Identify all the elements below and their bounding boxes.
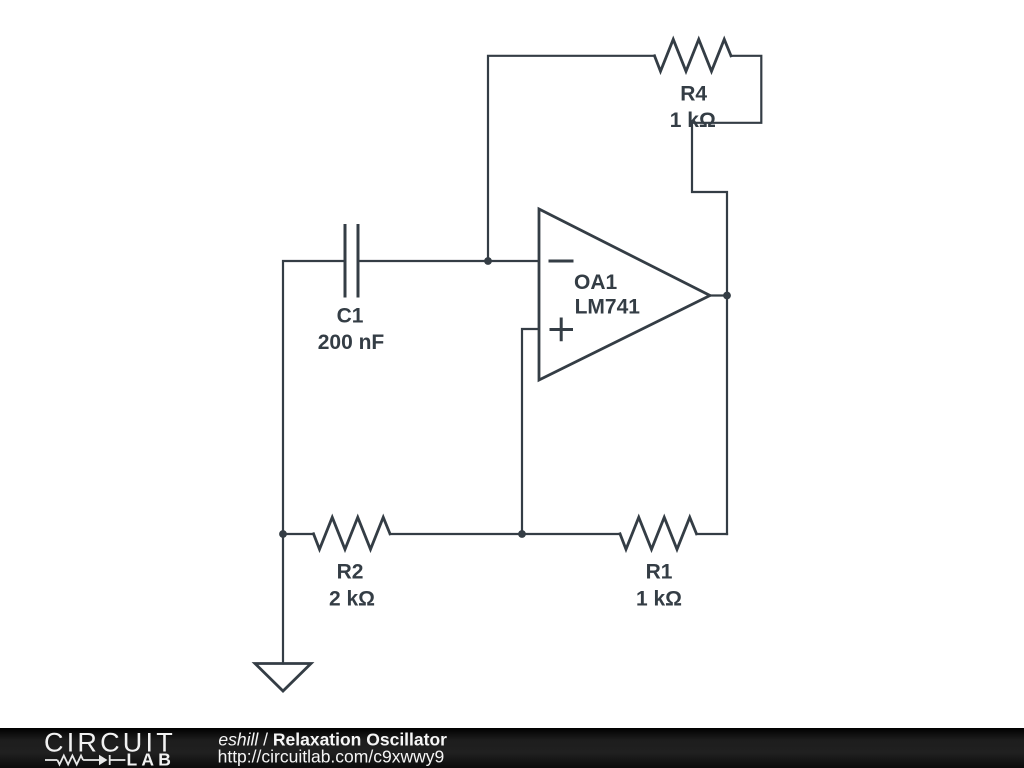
CircuitLab logo diode triangle [99, 755, 108, 765]
resistor R1 [620, 517, 697, 549]
wire feedback step down to output column [692, 123, 727, 534]
ground [255, 664, 311, 692]
CircuitLab logo resistor-diode line [45, 755, 125, 765]
svg-text:LM741: LM741 [575, 296, 641, 319]
svg-text:1 kΩ: 1 kΩ [636, 588, 682, 611]
wire C1 right lead to op-amp inverting input [358, 260, 539, 262]
svg-text:C1: C1 [337, 305, 364, 328]
wire R1 right lead [697, 533, 728, 535]
resistor R2 [314, 517, 391, 549]
wire bottom left to R2 [283, 533, 314, 535]
wire R4 right lead and down-left to label row [692, 56, 761, 123]
junction node at bottom left [279, 530, 287, 538]
junction node at inverting input [484, 257, 492, 265]
wire center node to R1 [522, 533, 620, 535]
resistor R4 [655, 39, 732, 71]
wire top-left: R4 left lead to left vertical down to inverting node [488, 56, 655, 261]
wire C1 left lead, left column down to ground [283, 261, 345, 664]
svg-text:2 kΩ: 2 kΩ [329, 588, 375, 611]
wire non-inverting input riser [522, 329, 539, 534]
svg-text:200 nF: 200 nF [318, 331, 385, 354]
svg-text:LAB: LAB [127, 750, 176, 768]
wire op-amp output [710, 294, 727, 296]
svg-text:R1: R1 [646, 561, 673, 584]
svg-text:OA1: OA1 [574, 271, 618, 294]
svg-text:R4: R4 [680, 82, 707, 105]
wire R2 right to center node [390, 533, 522, 535]
junction node at output [723, 292, 731, 300]
op-amp minus sign [550, 260, 572, 263]
capacitor C1 plates [345, 226, 358, 297]
svg-text:http://circuitlab.com/c9xwwy9: http://circuitlab.com/c9xwwy9 [218, 746, 445, 766]
junction node at non-inverting bottom [518, 530, 526, 538]
op-amp U1 triangle [539, 209, 710, 380]
svg-text:1 kΩ: 1 kΩ [670, 109, 716, 132]
svg-text:R2: R2 [337, 561, 364, 584]
op-amp plus sign [551, 319, 572, 340]
